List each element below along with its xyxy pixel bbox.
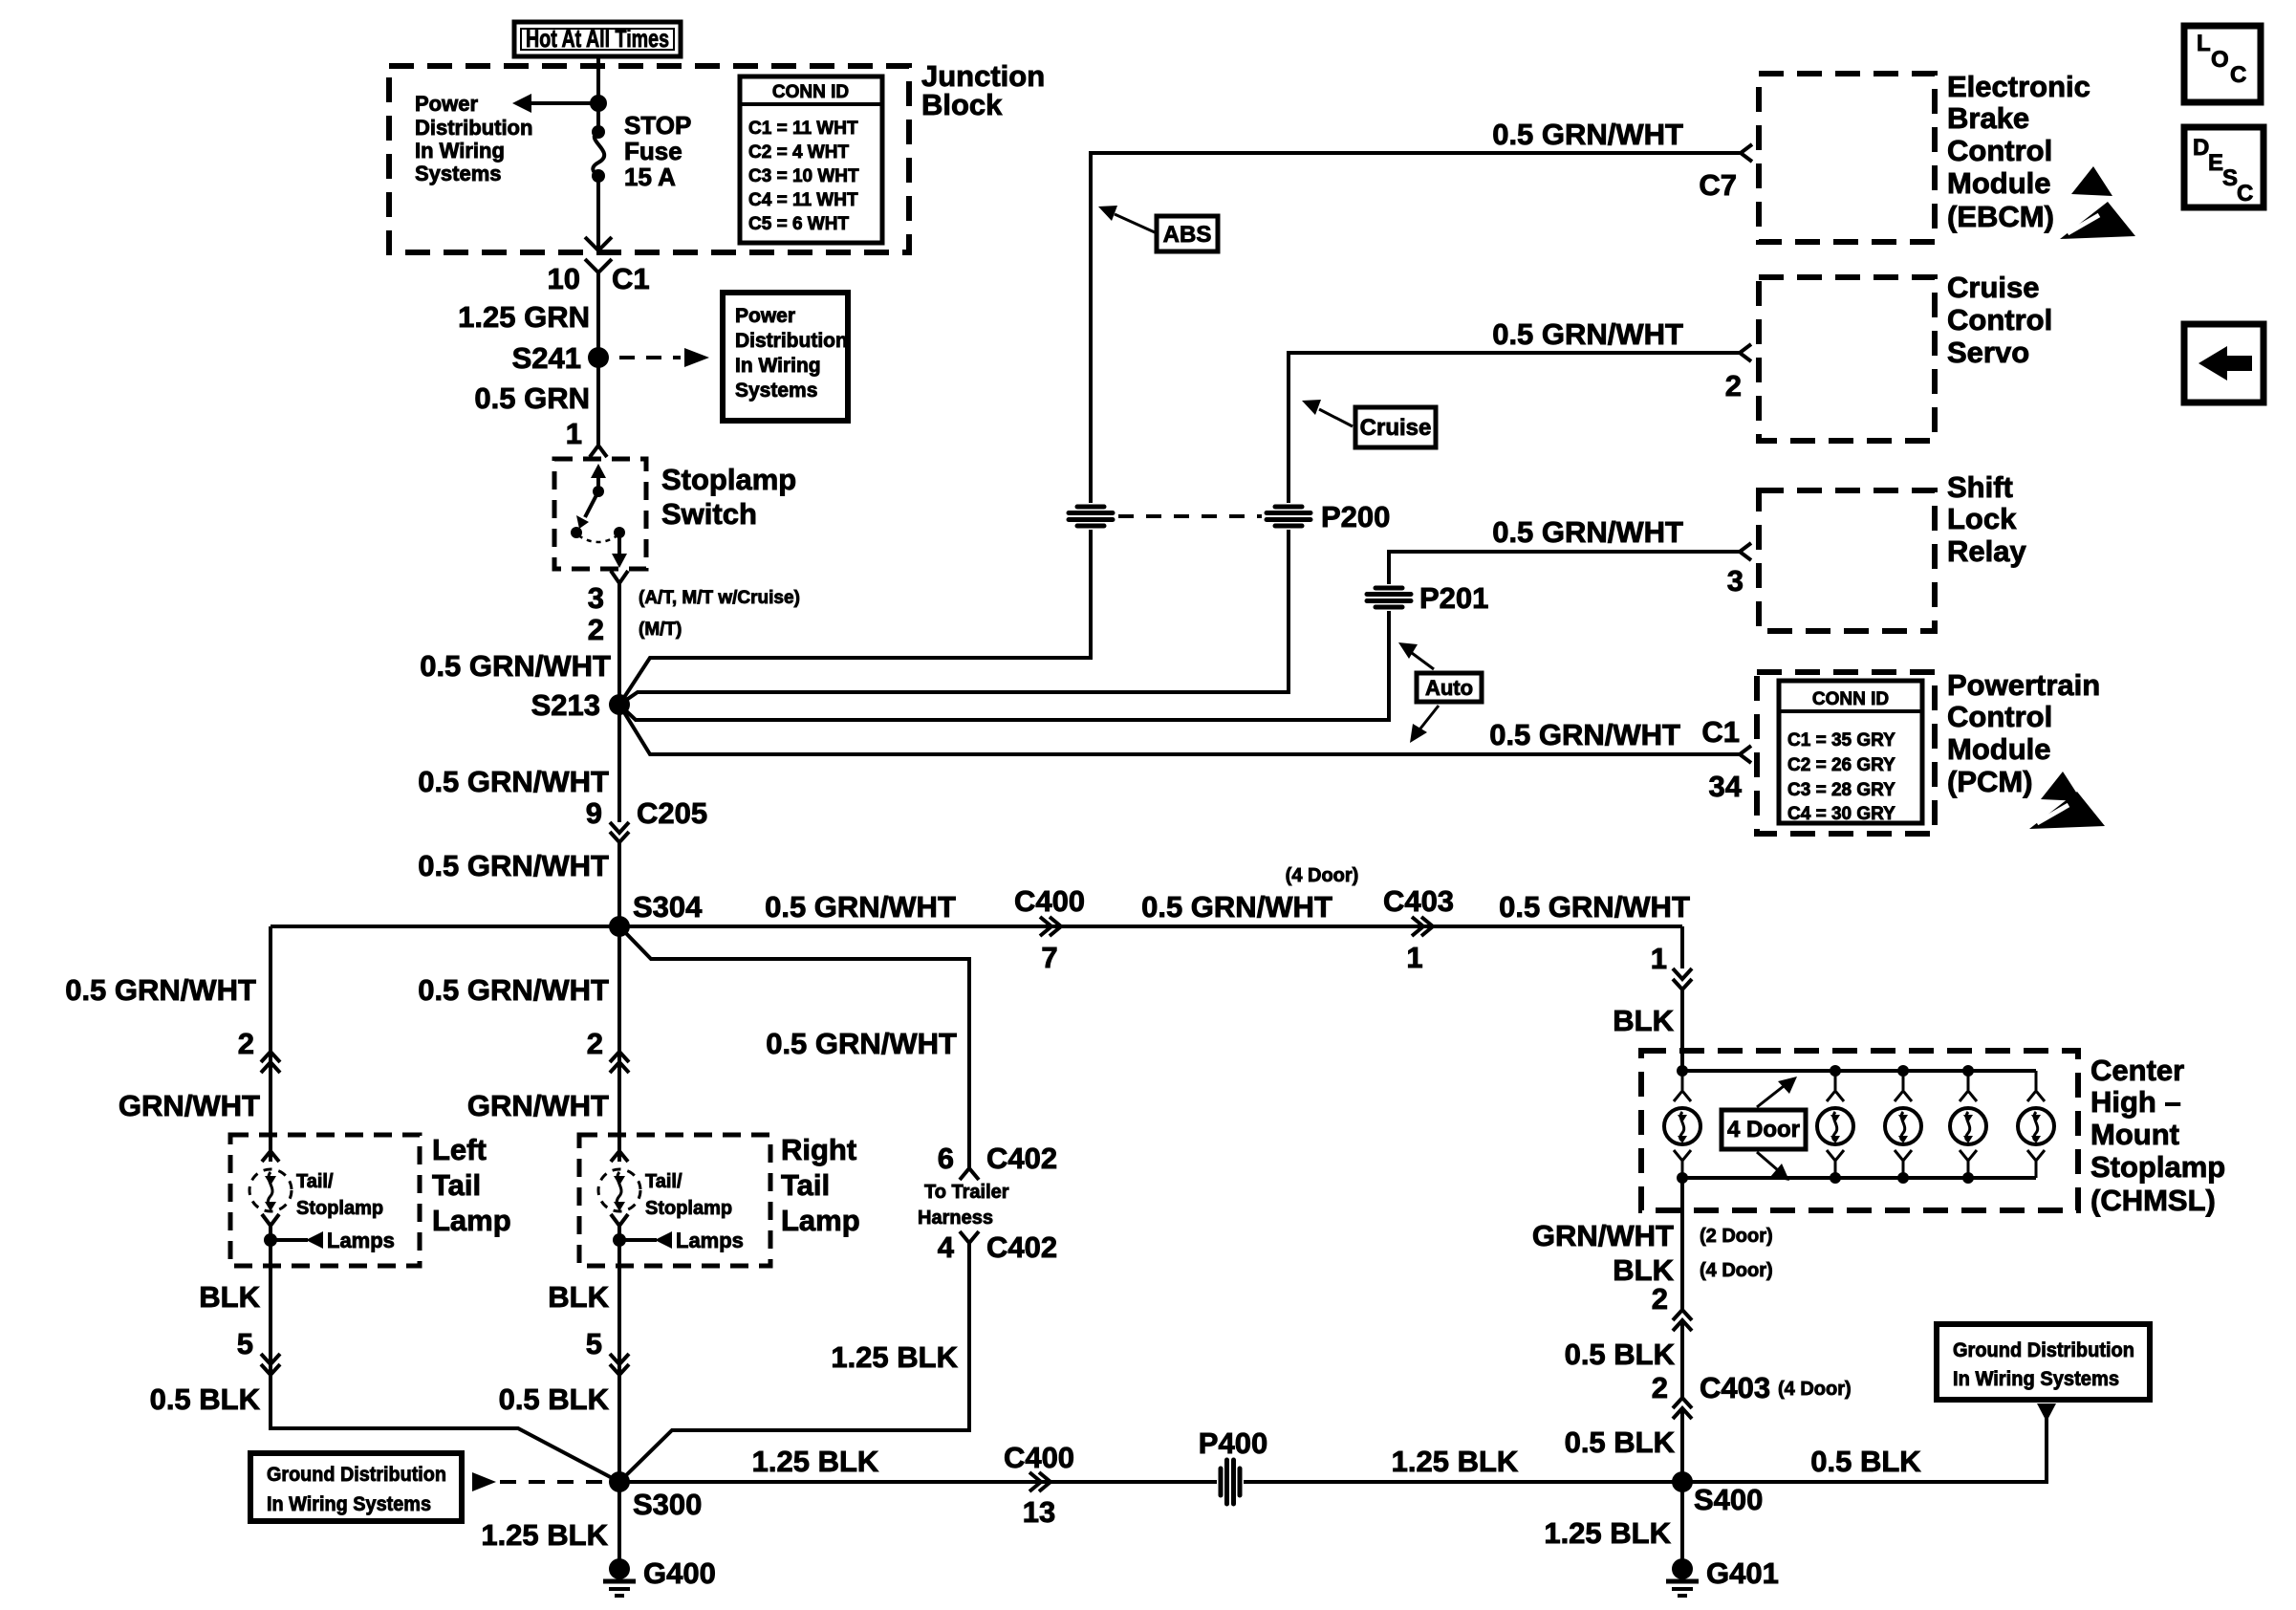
svg-text:(PCM): (PCM) — [1947, 765, 2033, 798]
connector P400 on ground bus — [1217, 1459, 1244, 1505]
CHMSL top bus — [1682, 1069, 2036, 1073]
svg-text:C400: C400 — [1004, 1441, 1074, 1474]
switch left contact — [571, 527, 582, 538]
svg-text:D: D — [2193, 135, 2209, 161]
svg-text:C7: C7 — [1699, 168, 1737, 202]
wire from Hot At All Times into junction block — [596, 56, 600, 130]
svg-text:Stoplamp: Stoplamp — [645, 1198, 732, 1219]
Hot At All Times label box — [514, 22, 681, 56]
CHMSL top bus nodes — [1677, 1065, 1974, 1077]
wire S400 to G401 — [1680, 1482, 1684, 1564]
svg-text:Module: Module — [1947, 166, 2051, 200]
svg-text:Power: Power — [415, 92, 478, 116]
CONN ID table (PCM) — [1779, 681, 1922, 824]
right tail lamp dashed box — [579, 1135, 770, 1266]
svg-text:1.25 GRN: 1.25 GRN — [458, 300, 590, 334]
svg-text:Control: Control — [1947, 134, 2052, 167]
wire S213 to cruise servo (branch 2) — [619, 353, 1740, 705]
left tail lamp dashed box — [230, 1135, 420, 1266]
svg-text:0.5 GRN/WHT: 0.5 GRN/WHT — [65, 973, 256, 1007]
svg-text:1: 1 — [1406, 941, 1422, 974]
pin 3 female connector half (below switch) — [611, 571, 628, 583]
svg-text:0.5 GRN/WHT: 0.5 GRN/WHT — [766, 1027, 957, 1060]
svg-text:BLK: BLK — [548, 1280, 609, 1314]
svg-text:S241: S241 — [512, 341, 581, 375]
svg-text:Ground Distribution: Ground Distribution — [1953, 1339, 2134, 1361]
svg-text:(4 Door): (4 Door) — [1700, 1260, 1773, 1281]
svg-text:C3 = 10 WHT: C3 = 10 WHT — [748, 166, 859, 186]
svg-text:1.25 BLK: 1.25 BLK — [1392, 1445, 1519, 1478]
svg-text:BLK: BLK — [1613, 1004, 1674, 1037]
svg-text:3: 3 — [588, 581, 604, 615]
Auto callout arrow to PCM wire — [1410, 706, 1439, 743]
svg-text:Control: Control — [1947, 303, 2052, 337]
svg-text:5: 5 — [586, 1327, 602, 1360]
splice S400 — [1672, 1471, 1693, 1492]
svg-text:C402: C402 — [986, 1142, 1057, 1175]
svg-text:C2 = 4 WHT: C2 = 4 WHT — [748, 142, 849, 163]
svg-text:34: 34 — [1709, 770, 1743, 803]
connector C402 pin 6 (half) — [960, 1168, 979, 1180]
svg-text:0.5 GRN/WHT: 0.5 GRN/WHT — [418, 973, 609, 1007]
svg-text:13: 13 — [1023, 1495, 1055, 1529]
svg-text:G400: G400 — [643, 1556, 716, 1590]
svg-text:3: 3 — [1727, 564, 1744, 598]
right bulb connector bottom — [611, 1214, 628, 1226]
CHMSL bulb 4 — [1950, 1071, 1986, 1178]
svg-text:GRN/WHT: GRN/WHT — [467, 1089, 609, 1122]
svg-text:C2 = 26 GRY: C2 = 26 GRY — [1787, 755, 1895, 775]
wire C1 to stoplamp switch — [596, 272, 600, 446]
ABS callout arrow — [1098, 206, 1155, 232]
svg-text:GRN/WHT: GRN/WHT — [1532, 1219, 1674, 1252]
svg-text:ABS: ABS — [1163, 222, 1212, 248]
wire into CHMSL box — [1680, 990, 1684, 1071]
svg-text:Tail/: Tail/ — [296, 1171, 334, 1192]
svg-text:Systems: Systems — [735, 380, 817, 402]
svg-text:Distribution: Distribution — [735, 330, 848, 352]
svg-text:0.5 BLK: 0.5 BLK — [1565, 1338, 1676, 1371]
svg-text:In Wiring: In Wiring — [415, 139, 505, 163]
svg-text:(CHMSL): (CHMSL) — [2090, 1184, 2216, 1217]
svg-text:BLK: BLK — [199, 1280, 260, 1314]
svg-text:Hot At All Times: Hot At All Times — [526, 24, 669, 53]
left bulb connector bottom — [262, 1214, 279, 1226]
arrow from right ground distribution box — [2037, 1403, 2056, 1422]
svg-text:Lamps: Lamps — [676, 1229, 744, 1252]
Lamps arrow (left) — [271, 1229, 395, 1252]
connector C400 pin 13 on ground bus — [1029, 1472, 1051, 1491]
right tail/stoplamp bulb — [598, 1169, 640, 1211]
svg-text:0.5 GRN/WHT: 0.5 GRN/WHT — [1489, 718, 1680, 751]
wire S213 to shift lock relay (branch 3) — [619, 552, 1740, 720]
stoplamp switch dashed box — [554, 459, 646, 569]
svg-text:STOP: STOP — [624, 111, 691, 140]
connector pin 2 (right lamp) — [610, 1052, 629, 1073]
svg-text:0.5 GRN/WHT: 0.5 GRN/WHT — [1492, 118, 1683, 151]
ESD symbol (EBCM) — [2060, 166, 2135, 239]
CHMSL bulb 5 — [2018, 1071, 2054, 1178]
wire to C403 — [1680, 1320, 1684, 1398]
svg-text:P400: P400 — [1199, 1426, 1267, 1460]
svg-text:Lamp: Lamp — [781, 1204, 860, 1237]
svg-text:CONN ID: CONN ID — [1812, 689, 1889, 709]
svg-text:0.5 GRN/WHT: 0.5 GRN/WHT — [1492, 317, 1683, 351]
svg-text:C4 = 30 GRY: C4 = 30 GRY — [1787, 804, 1895, 824]
svg-text:C402: C402 — [986, 1230, 1057, 1264]
connector C403 pin 1 on bus — [1412, 917, 1433, 936]
node junction to power distribution arrow — [590, 95, 607, 112]
CHMSL return wire — [1680, 1178, 1684, 1310]
svg-text:1.25 BLK: 1.25 BLK — [752, 1445, 879, 1478]
arrow to Power Distribution In Wiring Systems — [512, 94, 598, 113]
4 Door arrow to top bus — [1757, 1077, 1797, 1107]
Cruise callout arrow — [1302, 400, 1353, 426]
Cruise Control Servo dashed box — [1759, 277, 1935, 441]
svg-text:(M/T): (M/T) — [639, 620, 682, 640]
svg-text:Center: Center — [2090, 1054, 2184, 1087]
wire left bulb to box exit — [269, 1226, 272, 1240]
svg-text:In Wiring Systems: In Wiring Systems — [267, 1493, 431, 1515]
svg-text:Lamp: Lamp — [432, 1204, 511, 1237]
right bulb connector top — [611, 1151, 628, 1162]
svg-text:C205: C205 — [637, 796, 707, 830]
svg-text:(4 Door): (4 Door) — [1286, 865, 1359, 886]
svg-text:P200: P200 — [1321, 500, 1390, 533]
wire switch to S213 — [617, 583, 621, 705]
svg-text:O: O — [2211, 47, 2229, 73]
EBCM label — [1947, 70, 2090, 233]
svg-text:C1 = 35 GRY: C1 = 35 GRY — [1787, 730, 1895, 751]
svg-text:S: S — [2222, 165, 2238, 191]
left tail/stoplamp bulb — [249, 1169, 292, 1211]
svg-text:2: 2 — [1652, 1371, 1668, 1404]
pin 1 female connector half — [590, 446, 607, 457]
dashed arrow S241 to power distribution — [619, 348, 709, 367]
connector C205 pin 9 — [610, 822, 629, 842]
svg-text:Control: Control — [1947, 700, 2052, 733]
left tail lamp feed wire — [271, 926, 619, 1482]
svg-text:Right: Right — [781, 1133, 856, 1166]
CHMSL bulb 3 — [1885, 1071, 1921, 1178]
wire C403 to S400 — [1680, 1408, 1684, 1482]
Auto callout box — [1417, 673, 1482, 702]
CHMSL feed wire from bus corner — [1680, 926, 1684, 968]
svg-text:Tail/: Tail/ — [645, 1171, 682, 1192]
splice S241 — [588, 347, 609, 368]
EBCM dashed box — [1759, 74, 1935, 242]
svg-text:Switch: Switch — [661, 497, 757, 531]
svg-text:Tail: Tail — [432, 1168, 481, 1202]
CHMSL dashed box — [1641, 1051, 2078, 1210]
svg-text:C4 = 11 WHT: C4 = 11 WHT — [748, 190, 858, 210]
svg-text:C: C — [2237, 181, 2253, 207]
connector P201 on shift lock wire — [1366, 584, 1412, 611]
ABS callout box — [1157, 216, 1218, 251]
svg-text:0.5 GRN/WHT: 0.5 GRN/WHT — [420, 649, 611, 683]
svg-text:Lamps: Lamps — [327, 1229, 395, 1252]
svg-text:Electronic: Electronic — [1947, 70, 2090, 103]
Power Distribution In Wiring Systems callout box — [723, 293, 848, 421]
svg-text:Tail: Tail — [781, 1168, 830, 1202]
svg-text:1: 1 — [566, 417, 582, 450]
svg-text:Cruise: Cruise — [1947, 271, 2039, 304]
wire C205 to S304 — [617, 705, 621, 926]
svg-text:0.5 GRN: 0.5 GRN — [474, 381, 590, 415]
svg-text:C400: C400 — [1014, 884, 1085, 918]
fuse STOP 15A symbol — [592, 125, 605, 183]
Left Tail Lamp label — [432, 1133, 511, 1237]
svg-text:C1: C1 — [1701, 715, 1740, 749]
svg-text:(EBCM): (EBCM) — [1947, 200, 2054, 233]
svg-text:Lock: Lock — [1947, 502, 2017, 535]
svg-text:C: C — [2230, 62, 2246, 88]
Power Distribution In Wiring Systems text (junction block) — [415, 92, 532, 185]
switch fixed contact arrow (up) — [591, 464, 606, 491]
switch right contact — [614, 527, 625, 538]
svg-text:In Wiring: In Wiring — [735, 355, 821, 377]
ESD symbol (PCM) — [2029, 772, 2105, 829]
svg-text:GRN/WHT: GRN/WHT — [119, 1089, 260, 1122]
svg-text:Stoplamp: Stoplamp — [661, 463, 796, 496]
PCM label — [1947, 668, 2100, 798]
shift lock receptacle pin 3 — [1740, 543, 1751, 560]
svg-text:E: E — [2208, 150, 2223, 176]
svg-text:1: 1 — [1651, 942, 1667, 975]
svg-text:To Trailer: To Trailer — [924, 1182, 1009, 1203]
connector C1 pin 10 (junction block exit) — [585, 237, 612, 272]
svg-text:S400: S400 — [1694, 1483, 1763, 1516]
svg-text:4: 4 — [938, 1230, 955, 1264]
To Trailer Harness label — [918, 1182, 1009, 1229]
svg-text:5: 5 — [237, 1327, 253, 1360]
svg-text:Fuse: Fuse — [624, 137, 682, 165]
svg-text:0.5 GRN/WHT: 0.5 GRN/WHT — [1499, 890, 1690, 924]
wire S213 to PCM (branch 4) — [619, 705, 1740, 754]
PCM receptacle C1-34 — [1740, 746, 1751, 763]
Ground Distribution callout box (left) — [250, 1453, 462, 1521]
svg-text:P201: P201 — [1419, 581, 1488, 615]
right lamp internal node — [613, 1233, 626, 1247]
svg-text:2: 2 — [587, 1027, 603, 1060]
CHMSL label — [2090, 1054, 2225, 1217]
CHMSL bulb 2 — [1817, 1071, 1853, 1178]
svg-text:C5 = 6 WHT: C5 = 6 WHT — [748, 214, 849, 234]
Tail/Stoplamp label (right) — [645, 1171, 732, 1219]
svg-text:Ground Distribution: Ground Distribution — [267, 1464, 446, 1486]
junction block dashed box — [389, 66, 909, 252]
svg-text:Shift: Shift — [1947, 470, 2013, 504]
4 Door callout box — [1722, 1110, 1806, 1149]
right tail lamp feed (main vertical continues) — [617, 926, 621, 1482]
Lamps arrow (right) — [619, 1229, 744, 1252]
trailer harness feed wire from S304 — [619, 926, 969, 1168]
connector C403 (rear) — [1673, 1398, 1692, 1419]
splice S213 — [609, 694, 630, 715]
svg-text:Cruise: Cruise — [1360, 415, 1432, 441]
svg-text:Powertrain: Powertrain — [1947, 668, 2100, 702]
svg-text:In Wiring Systems: In Wiring Systems — [1953, 1368, 2119, 1390]
svg-text:0.5 GRN/WHT: 0.5 GRN/WHT — [1141, 890, 1332, 924]
svg-text:Auto: Auto — [1425, 676, 1473, 700]
ground bus wire S300 to S400 to ground distribution — [619, 1415, 2047, 1482]
ground G401 — [1666, 1558, 1699, 1596]
svg-text:C3 = 28 GRY: C3 = 28 GRY — [1787, 780, 1895, 800]
svg-text:Stoplamp: Stoplamp — [296, 1198, 383, 1219]
switch lever with arrowhead — [576, 491, 598, 529]
switch output arrow (down) — [612, 533, 627, 568]
svg-text:S213: S213 — [531, 688, 600, 722]
svg-text:C1: C1 — [612, 262, 650, 295]
svg-text:1.25 BLK: 1.25 BLK — [831, 1340, 958, 1374]
Right Tail Lamp label — [781, 1133, 860, 1237]
STOP Fuse 15 A label — [624, 111, 691, 191]
CONN ID table (junction block) — [740, 76, 882, 243]
svg-text:S304: S304 — [633, 890, 703, 924]
svg-text:CONN ID: CONN ID — [772, 82, 849, 102]
CHMSL bottom bus nodes — [1677, 1172, 1974, 1184]
switch dashed travel arc — [578, 535, 617, 542]
Shift Lock Relay dashed box — [1759, 490, 1935, 631]
connector P200 half on cruise wire — [1266, 503, 1311, 530]
svg-text:0.5 GRN/WHT: 0.5 GRN/WHT — [1492, 515, 1683, 549]
svg-text:0.5 BLK: 0.5 BLK — [1565, 1425, 1676, 1459]
connector pin 2 (CHMSL return) — [1673, 1310, 1692, 1331]
svg-text:1.25 BLK: 1.25 BLK — [481, 1518, 608, 1552]
svg-text:9: 9 — [586, 796, 602, 830]
svg-text:(2 Door): (2 Door) — [1700, 1226, 1773, 1247]
svg-text:Mount: Mount — [2090, 1118, 2179, 1151]
Tail/Stoplamp label (left) — [296, 1171, 383, 1219]
EBCM receptacle C7 — [1741, 144, 1752, 162]
svg-text:6: 6 — [938, 1142, 954, 1175]
LOC box — [2184, 26, 2261, 102]
Auto callout arrow to P201 wire — [1398, 642, 1434, 669]
svg-text:7: 7 — [1041, 941, 1057, 974]
svg-text:2: 2 — [238, 1027, 254, 1060]
connector pin 5 (left lamp) — [261, 1354, 280, 1375]
svg-text:Systems: Systems — [415, 162, 502, 185]
dashed arrow ground distribution to S300 — [472, 1472, 612, 1491]
left lamp internal node — [264, 1233, 277, 1247]
svg-text:15 A: 15 A — [624, 163, 676, 191]
svg-text:2: 2 — [1725, 369, 1742, 402]
cruise servo receptacle pin 2 — [1740, 344, 1751, 361]
splice S300 — [609, 1471, 630, 1492]
svg-text:C1 = 11 WHT: C1 = 11 WHT — [748, 119, 858, 139]
main bus wire S304 left and right — [271, 925, 1682, 928]
Shift Lock Relay label — [1947, 470, 2026, 568]
ground G400 — [603, 1558, 636, 1596]
connector pin 2 (left lamp) — [261, 1052, 280, 1073]
svg-text:C403: C403 — [1700, 1371, 1770, 1404]
svg-text:2: 2 — [588, 613, 604, 646]
P200 dashed pairing line — [1118, 514, 1262, 518]
wire S213 to EBCM (branch 1) — [619, 153, 1740, 705]
connector C402 pin 4 (half) — [960, 1231, 979, 1243]
connector pin 5 (right lamp) — [610, 1354, 629, 1375]
svg-text:Module: Module — [1947, 732, 2051, 766]
svg-text:Power: Power — [735, 305, 795, 327]
PCM dashed box — [1757, 672, 1935, 834]
svg-text:10: 10 — [548, 262, 580, 295]
svg-text:0.5 GRN/WHT: 0.5 GRN/WHT — [765, 890, 956, 924]
svg-text:0.5 GRN/WHT: 0.5 GRN/WHT — [418, 765, 609, 798]
svg-text:Harness: Harness — [918, 1207, 993, 1229]
connector P200 half on EBCM wire — [1068, 503, 1114, 530]
svg-text:Stoplamp: Stoplamp — [2090, 1150, 2225, 1184]
svg-text:0.5 BLK: 0.5 BLK — [150, 1382, 261, 1416]
svg-text:High –: High – — [2090, 1085, 2181, 1119]
CHMSL bulb 1 — [1664, 1071, 1700, 1178]
svg-text:Relay: Relay — [1947, 534, 2026, 568]
svg-text:Left: Left — [432, 1133, 487, 1166]
Ground Distribution callout box (right) — [1937, 1324, 2150, 1400]
wire S300 to G400 — [617, 1482, 621, 1564]
svg-text:0.5 GRN/WHT: 0.5 GRN/WHT — [418, 849, 609, 882]
svg-text:2: 2 — [1652, 1282, 1668, 1316]
Cruise callout box — [1355, 407, 1436, 447]
svg-text:(A/T, M/T w/Cruise): (A/T, M/T w/Cruise) — [639, 588, 800, 608]
switch pivot contact — [593, 486, 604, 497]
svg-text:1.25 BLK: 1.25 BLK — [1544, 1516, 1671, 1550]
back arrow box — [2184, 324, 2264, 402]
trailer harness ground wire to S300 — [619, 1243, 969, 1482]
svg-text:Brake: Brake — [1947, 101, 2029, 135]
svg-text:C403: C403 — [1383, 884, 1454, 918]
CHMSL bottom bus — [1682, 1176, 2036, 1180]
svg-text:0.5 BLK: 0.5 BLK — [1810, 1445, 1921, 1478]
svg-text:S300: S300 — [633, 1488, 702, 1521]
left bulb connector top — [262, 1151, 279, 1162]
svg-text:0.5 BLK: 0.5 BLK — [499, 1382, 610, 1416]
connector C400 pin 7 on bus — [1040, 917, 1061, 936]
connector pin 1 (CHMSL) — [1673, 968, 1692, 990]
svg-text:Servo: Servo — [1947, 336, 2029, 369]
4 Door arrow to bottom bus — [1757, 1152, 1789, 1181]
svg-text:4 Door: 4 Door — [1727, 1117, 1800, 1142]
splice S304 — [609, 916, 630, 937]
svg-text:Block: Block — [921, 88, 1003, 121]
svg-text:Distribution: Distribution — [415, 116, 532, 140]
svg-text:G401: G401 — [1706, 1556, 1779, 1590]
Cruise Control Servo label — [1947, 271, 2052, 369]
DESC box — [2184, 127, 2264, 207]
wire fuse to C1 connector — [596, 176, 600, 250]
svg-text:(4 Door): (4 Door) — [1778, 1379, 1852, 1400]
svg-text:L: L — [2197, 31, 2211, 56]
